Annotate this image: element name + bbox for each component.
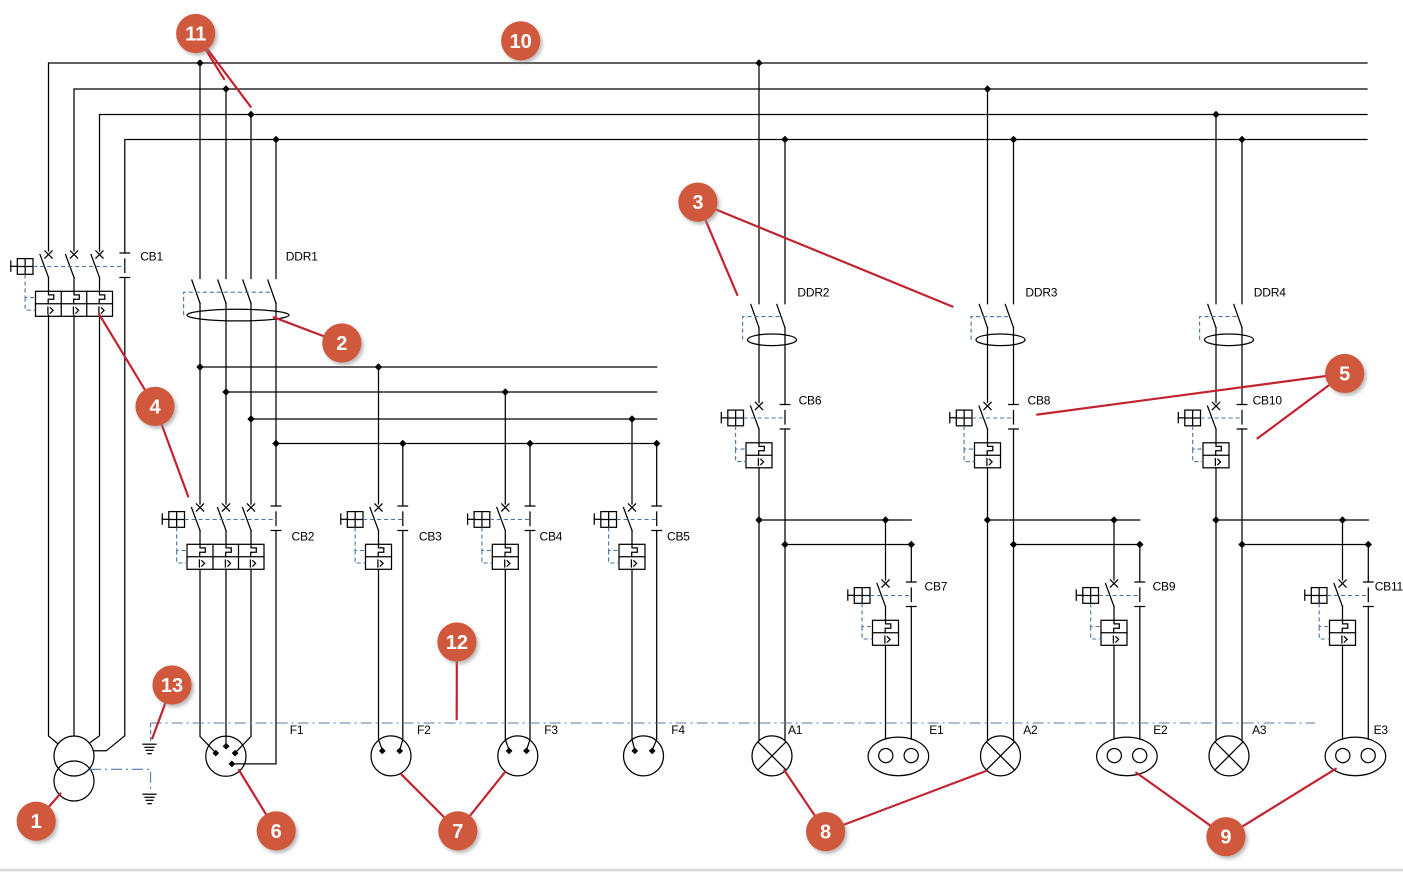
wire CB2 to F1 L3	[235, 569, 251, 753]
lamp A3	[1209, 736, 1249, 776]
svg-text:12: 12	[446, 632, 468, 654]
socket outlet F2	[371, 736, 411, 776]
svg-text:F4: F4	[671, 723, 685, 737]
wire sub-bus to CB5	[631, 419, 633, 504]
wire L2 bus	[74, 89, 1367, 251]
wire neutral branch 1	[785, 544, 911, 546]
callout 2	[274, 317, 362, 362]
wire bus to DDR3 neutral	[1013, 140, 1015, 304]
junction phase branch 1/CB7	[882, 516, 889, 523]
wire CB9 to socket neutral	[1139, 607, 1141, 740]
wire phase branch 1	[759, 519, 911, 521]
svg-text:10: 10	[510, 31, 532, 53]
wire CB11 to socket neutral	[1367, 607, 1369, 740]
callout 8	[784, 770, 986, 851]
svg-text:3: 3	[692, 192, 703, 214]
wire bus to DDR4 phase	[1215, 115, 1217, 304]
wire neutral branch 3	[1242, 544, 1368, 546]
wire DDR4 to CB10 neutral	[1241, 328, 1243, 405]
ground F-line	[143, 744, 156, 754]
svg-text:13: 13	[161, 675, 183, 697]
svg-text:F1: F1	[290, 723, 304, 737]
junction phase branch 2/CB9	[1110, 516, 1117, 523]
junction sub-bus 4 start	[272, 440, 279, 447]
junction neutral branch 2 end	[1136, 541, 1143, 548]
wire bus to DDR1 pole 2	[225, 89, 227, 279]
svg-text:DDR2: DDR2	[797, 286, 829, 300]
wire branch to CB11 neutral	[1367, 545, 1369, 583]
wire CB6 to lamp phase	[758, 468, 760, 740]
circuit breaker CB5	[594, 504, 690, 569]
wire CB1 to transformer L3	[91, 315, 100, 742]
wire to socket phase	[632, 569, 635, 750]
svg-text:CB4: CB4	[540, 530, 563, 544]
wire CB8 to lamp neutral	[1013, 429, 1015, 740]
junction phase branch 2 start	[984, 516, 991, 523]
svg-text:CB6: CB6	[799, 394, 822, 408]
circuit breaker CB1	[11, 250, 164, 317]
wire phase branch 3	[1216, 519, 1368, 521]
callout 4	[99, 314, 188, 496]
wire CB9 to socket phase	[1113, 645, 1115, 739]
wire F-line earth stub	[150, 723, 152, 742]
svg-text:CB5: CB5	[667, 530, 690, 544]
wire DDR2 to CB6 neutral	[784, 328, 786, 405]
wire to socket neutral	[527, 531, 531, 751]
junction sub-bus L2/CB4	[502, 388, 509, 395]
svg-text:CB10: CB10	[1253, 394, 1283, 408]
junction neutral branch 3 end	[1365, 541, 1372, 548]
wire CB8 to lamp phase	[987, 468, 989, 740]
callout 12	[437, 622, 476, 719]
wire CB1 to transformer L2	[73, 315, 75, 736]
junction L3/DDR1	[247, 111, 254, 118]
wire sub-bus to CB5 N	[656, 444, 658, 507]
junction L2/DDR3	[984, 85, 991, 92]
junction L1/DDR1	[196, 59, 203, 66]
wire to socket neutral	[400, 531, 403, 751]
wire sub-bus to CB3	[378, 367, 380, 504]
junction phase branch 1 start	[755, 516, 762, 523]
wire sub-bus 3	[251, 418, 657, 420]
wire bus to DDR1 pole 4	[275, 140, 277, 279]
wire DDR1 to CB2 L3	[250, 303, 252, 504]
circuit breaker CB3	[341, 504, 442, 569]
junction neutral branch 1 end	[908, 541, 915, 548]
wire to socket phase	[505, 569, 509, 750]
svg-text:CB1: CB1	[140, 250, 163, 264]
junction N/DDR2	[781, 136, 788, 143]
junction N/DDR4	[1238, 136, 1245, 143]
ground transformer	[143, 794, 156, 804]
wire phase branch 2	[988, 519, 1140, 521]
wire sub-bus 4	[276, 443, 657, 445]
socket outlet E1	[868, 737, 929, 776]
wire CB6 to lamp neutral	[784, 429, 786, 740]
wire branch to CB7 neutral	[910, 545, 912, 583]
svg-text:F2: F2	[417, 723, 431, 737]
junction neutral branch 3 start	[1238, 541, 1245, 548]
F circuits boundary line	[151, 722, 1315, 724]
socket outlet F4	[624, 736, 664, 776]
circuit breaker CB6	[721, 394, 822, 468]
RCD DDR1	[184, 250, 319, 321]
svg-text:E3: E3	[1374, 723, 1389, 737]
callout 3	[678, 183, 952, 307]
wire DDR1 to CB2 N	[275, 303, 277, 506]
svg-text:CB9: CB9	[1153, 580, 1176, 594]
wire N bus	[125, 140, 1367, 254]
wire L1 bus	[49, 63, 1368, 251]
circuit breaker CB11	[1305, 580, 1403, 646]
circuit breaker CB2	[162, 504, 314, 569]
socket outlet F3	[498, 736, 538, 776]
callout 13	[152, 665, 191, 738]
callout 7	[401, 772, 505, 851]
svg-text:7: 7	[452, 821, 463, 843]
wire branch to CB7 phase	[885, 520, 887, 580]
wire DDR1 to CB2 L1	[199, 303, 201, 504]
junction L1/DDR2	[755, 59, 762, 66]
circuit breaker CB9	[1076, 580, 1176, 646]
wire CB2 to F1 L1	[200, 569, 216, 753]
svg-text:CB7: CB7	[925, 580, 948, 594]
wire CB2 to F1 N	[232, 531, 276, 764]
wire CB1 to transformer N	[93, 278, 124, 751]
circuit breaker CB4	[468, 504, 563, 569]
socket outlet E3	[1325, 737, 1386, 776]
wire bus to DDR4 neutral	[1241, 140, 1243, 304]
callout 6	[239, 770, 296, 851]
wire bus to DDR1 pole 3	[250, 115, 252, 279]
wire bus to DDR2 neutral	[784, 140, 786, 304]
wire to socket neutral	[652, 531, 657, 751]
socket outlet E2	[1097, 737, 1158, 776]
svg-text:DDR3: DDR3	[1025, 286, 1057, 300]
junction phase branch 3 start	[1212, 516, 1219, 523]
junction sub-bus 3 start	[247, 415, 254, 422]
wire bus to DDR2 phase	[758, 63, 760, 304]
junction sub-bus 2 start	[222, 388, 229, 395]
junction L2/DDR1	[222, 85, 229, 92]
svg-text:DDR4: DDR4	[1254, 286, 1286, 300]
svg-text:A1: A1	[788, 723, 803, 737]
junction sub-bus N/CB4	[526, 440, 533, 447]
wire sub-bus 2	[226, 391, 657, 393]
circuit breaker CB10	[1178, 394, 1282, 468]
RCD DDR2	[743, 286, 830, 346]
svg-text:DDR1: DDR1	[286, 250, 318, 264]
svg-text:CB8: CB8	[1028, 394, 1051, 408]
svg-text:6: 6	[271, 821, 282, 843]
svg-text:5: 5	[1339, 364, 1350, 386]
junction sub-bus 1 start	[196, 363, 203, 370]
svg-text:E2: E2	[1153, 723, 1168, 737]
callout 5	[1037, 354, 1364, 439]
svg-text:11: 11	[185, 24, 206, 46]
circuit breaker CB8	[950, 394, 1051, 468]
junction N/DDR3	[1010, 136, 1017, 143]
svg-text:CB3: CB3	[419, 530, 442, 544]
socket outlet F1	[206, 736, 246, 776]
wire DDR3 to CB8 phase	[987, 328, 989, 403]
wire CB1 to transformer L1	[49, 315, 58, 743]
bottom separator	[0, 869, 1403, 872]
junction L3/DDR4	[1212, 111, 1219, 118]
wire sub-bus to CB4 N	[529, 444, 531, 507]
wire DDR1 to CB2 L2	[225, 303, 227, 504]
junction sub-bus N/CB3	[399, 440, 406, 447]
wire transformer earth link	[90, 769, 151, 790]
svg-text:2: 2	[336, 333, 347, 355]
wire L3 bus	[100, 115, 1368, 252]
wire CB10 to lamp neutral	[1241, 429, 1243, 740]
wire CB7 to socket neutral	[910, 607, 912, 740]
wire CB7 to socket phase	[885, 645, 887, 739]
wire branch to CB11 phase	[1342, 520, 1344, 580]
svg-text:1: 1	[31, 811, 42, 833]
junction phase branch 3/CB11	[1339, 516, 1346, 523]
wire sub-bus to CB3 N	[402, 444, 404, 507]
wire to socket phase	[379, 569, 383, 750]
junction sub-bus L3/CB5	[628, 415, 635, 422]
wire branch to CB9 phase	[1113, 520, 1115, 580]
lamp A2	[981, 736, 1021, 776]
RCD DDR4	[1200, 286, 1287, 346]
wire DDR4 to CB10 phase	[1215, 328, 1217, 403]
wire CB2 to F1 L2	[225, 569, 227, 746]
wire sub-bus 1	[200, 366, 657, 368]
svg-text:A3: A3	[1252, 723, 1267, 737]
svg-text:CB2: CB2	[292, 530, 315, 544]
svg-text:4: 4	[149, 396, 161, 418]
callout 10	[501, 21, 540, 60]
RCD DDR3	[971, 286, 1058, 346]
transformer T1	[54, 736, 94, 801]
junction neutral branch 1 start	[781, 541, 788, 548]
svg-text:E1: E1	[929, 723, 944, 737]
wire DDR2 to CB6 phase	[758, 328, 760, 403]
junction sub-bus L1/CB3	[375, 363, 382, 370]
svg-text:CB11: CB11	[1375, 580, 1403, 594]
circuit breaker CB7	[848, 580, 948, 646]
callout 1	[17, 794, 61, 841]
callout 11	[176, 14, 251, 107]
wire bus to DDR1 pole 1	[199, 63, 201, 279]
wire sub-bus to CB4	[504, 392, 506, 504]
wire bus to DDR3 phase	[987, 89, 989, 304]
wire CB11 to socket phase	[1342, 645, 1344, 739]
wire neutral branch 2	[1014, 544, 1140, 546]
junction sub-bus N/CB5	[653, 440, 660, 447]
svg-text:8: 8	[820, 822, 831, 844]
callout 9	[1136, 769, 1336, 857]
lamp A1	[752, 736, 792, 776]
svg-text:F3: F3	[544, 723, 558, 737]
wire CB10 to lamp phase	[1215, 468, 1217, 740]
wire branch to CB9 neutral	[1139, 545, 1141, 583]
svg-text:A2: A2	[1023, 723, 1038, 737]
junction N/DDR1	[272, 136, 279, 143]
svg-text:9: 9	[1220, 827, 1231, 849]
junction neutral branch 2 start	[1010, 541, 1017, 548]
wire DDR3 to CB8 neutral	[1013, 328, 1015, 405]
